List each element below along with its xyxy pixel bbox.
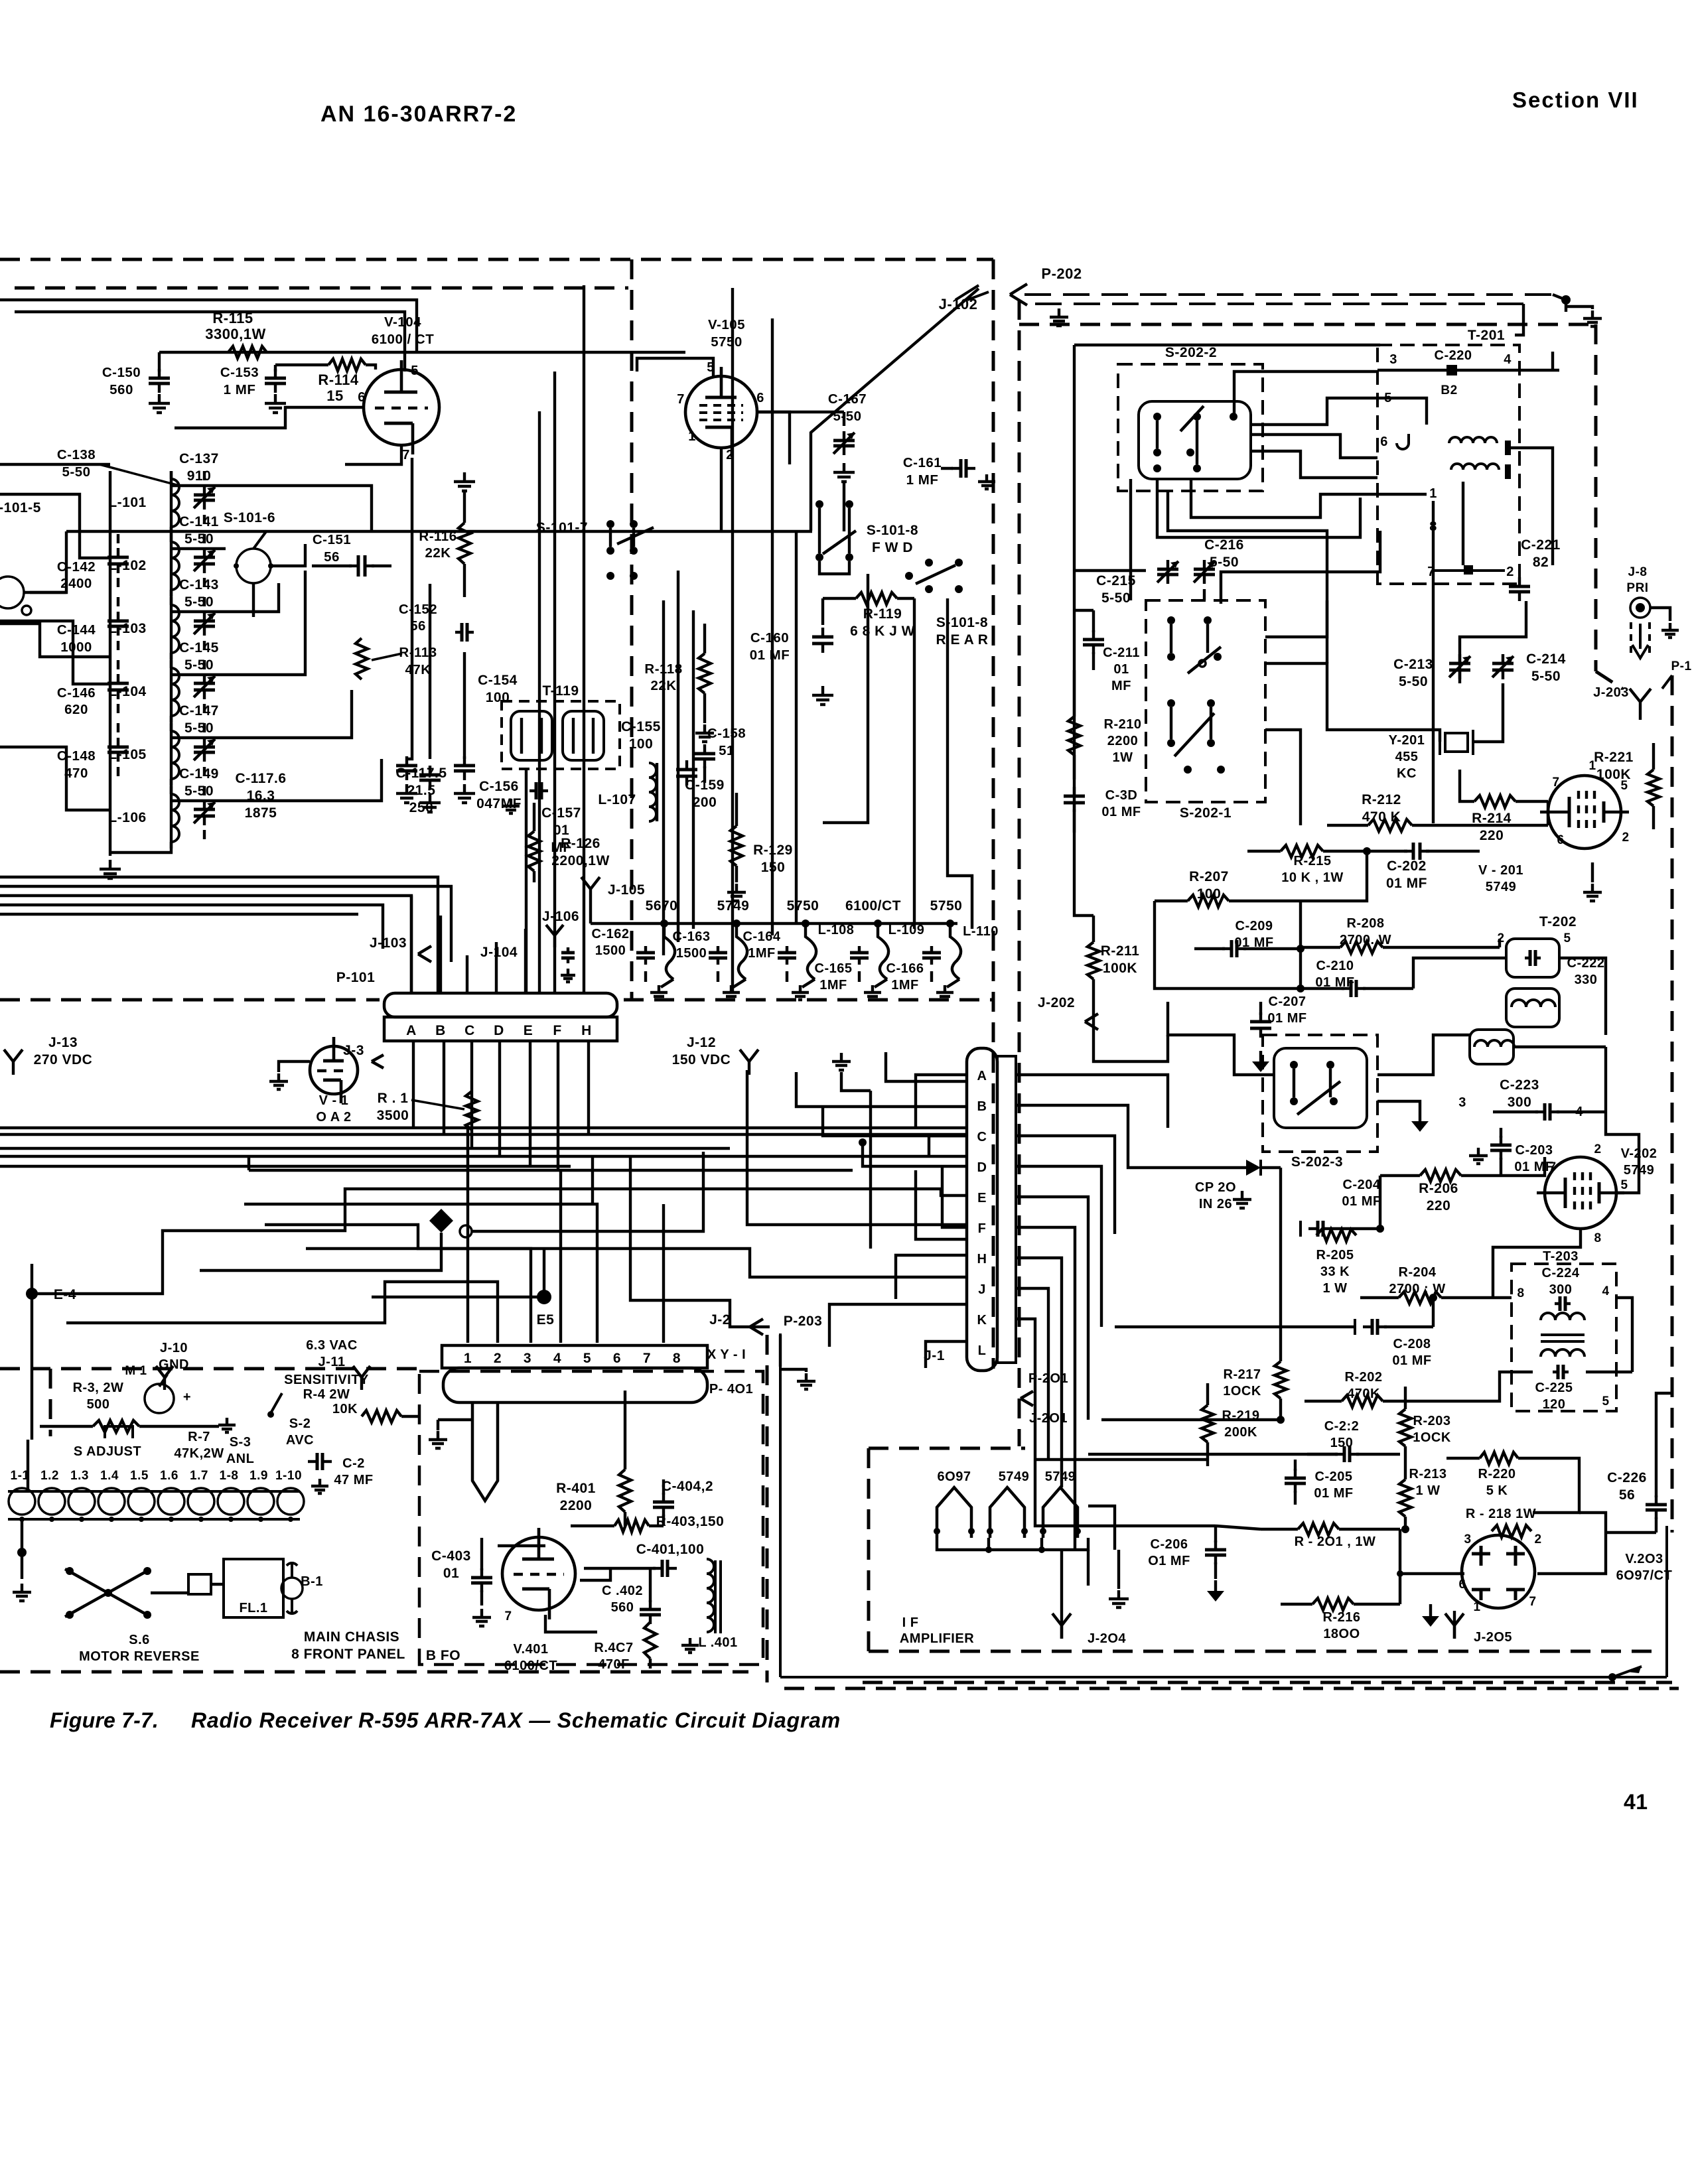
wire long vertical 5 [662, 600, 665, 955]
wire J1 r7 [1016, 1258, 1062, 1487]
ground bottom right [1608, 1665, 1642, 1681]
jack J-10 GND [156, 1341, 189, 1390]
trimmer C-213 [1393, 654, 1470, 689]
tube socket symbol 5 [922, 923, 961, 987]
wire IF h33 [1537, 1533, 1606, 1574]
svg-text:C-208: C-208 [1393, 1337, 1431, 1351]
transformer T-201 pin6 [1380, 434, 1409, 449]
svg-text:56: 56 [324, 549, 340, 565]
wire IF snake 10 [1511, 448, 1553, 565]
svg-text:J-104: J-104 [480, 945, 518, 960]
svg-text:1.4: 1.4 [100, 1469, 119, 1483]
frame IF amp box dashed bottom [869, 1650, 1656, 1653]
resistor R-206 [1380, 1170, 1506, 1213]
svg-text:47K: 47K [405, 662, 431, 677]
wire long vertical 3 [538, 411, 541, 993]
svg-text:100: 100 [486, 690, 510, 705]
svg-text:3: 3 [1458, 1095, 1466, 1110]
resistor R-212 [1327, 792, 1440, 831]
capacitor C-206 [1148, 1526, 1226, 1579]
wire V105 drop 1 [913, 598, 916, 929]
svg-text:S-3: S-3 [230, 1435, 251, 1450]
svg-text:01 MF: 01 MF [1342, 1194, 1381, 1209]
svg-text:P-101: P-101 [336, 970, 376, 985]
svg-text:2200: 2200 [1107, 734, 1139, 748]
ground S-202-3 [1377, 1101, 1429, 1132]
svg-text:C-156: C-156 [479, 779, 519, 794]
resistor R-202 [1304, 1370, 1420, 1407]
wire long vertical 4 [525, 770, 528, 993]
svg-text:I F: I F [902, 1615, 919, 1630]
svg-text:5-50: 5-50 [184, 720, 214, 736]
trimmer capacitor row 4 [194, 723, 215, 776]
resistor R-208 [1301, 916, 1500, 953]
socket arch IF 1 [934, 1487, 975, 1538]
wire IF h9 [1440, 824, 1548, 827]
wire IF h32 [1397, 1570, 1464, 1577]
label C-163 [673, 929, 711, 961]
svg-text:J-103: J-103 [370, 935, 407, 951]
svg-text:R-211: R-211 [1101, 943, 1140, 959]
frame chassis left dashed stub [49, 1369, 52, 1436]
svg-text:T-203: T-203 [1543, 1249, 1579, 1264]
label C-141 [179, 514, 219, 547]
capacitor C-223 [1458, 1077, 1606, 1121]
svg-text:C-209: C-209 [1235, 919, 1273, 933]
svg-text:IN 26: IN 26 [1199, 1197, 1232, 1211]
svg-text:P- 4O1: P- 4O1 [709, 1382, 753, 1397]
frame chassis top dashed [0, 1367, 418, 1371]
svg-text:5: 5 [583, 1351, 591, 1366]
svg-text:2: 2 [1506, 565, 1514, 579]
ground socket 4 [864, 985, 881, 1000]
svg-text:C-401,100: C-401,100 [636, 1542, 705, 1557]
label T-203 [1542, 1249, 1580, 1297]
wire bus A [0, 877, 438, 993]
resistor R-219 [1202, 1383, 1259, 1466]
wire inner frame run 1 [0, 300, 417, 352]
svg-text:1: 1 [1473, 1600, 1480, 1614]
svg-text:C-2:2: C-2:2 [1324, 1419, 1360, 1434]
capacitor C-220 [1389, 348, 1512, 397]
wire socket strip bottom [8, 1517, 300, 1522]
transformer T-119 can 1 [511, 711, 552, 760]
jack J-12 [672, 1035, 758, 1075]
svg-text:6.3 VAC: 6.3 VAC [306, 1338, 358, 1353]
capacitor C-203 [1469, 1128, 1554, 1174]
resistor R-211 [1088, 916, 1139, 1002]
tube V-202 [1537, 1142, 1657, 1245]
wire P-202 corner [1515, 295, 1571, 370]
svg-text:B-1: B-1 [301, 1574, 323, 1589]
wire P101 riser B [443, 1040, 445, 1134]
svg-text:T-201: T-201 [1468, 328, 1505, 343]
wire IF snake 3 [1157, 479, 1360, 537]
inductor L-401 [698, 1559, 737, 1650]
svg-text:470F: 470F [598, 1657, 630, 1672]
svg-text:C-162: C-162 [592, 927, 630, 941]
wire antenna input [0, 531, 110, 657]
frame RF bottom dashed right [624, 998, 993, 1002]
svg-text:01 MF: 01 MF [1392, 1353, 1431, 1368]
transformer T-201 pin5 [1377, 391, 1427, 425]
resistor R-205 [1316, 1229, 1356, 1296]
svg-text:J-2O4: J-2O4 [1088, 1631, 1126, 1646]
svg-text:10 K , 1W: 10 K , 1W [1281, 870, 1343, 885]
svg-text:2: 2 [1622, 831, 1629, 845]
svg-text:J-203: J-203 [1593, 685, 1629, 700]
label C-157 [541, 805, 581, 855]
svg-text:R-203: R-203 [1413, 1414, 1451, 1428]
trimmer capacitor row 1 [194, 534, 215, 587]
svg-text:1000: 1000 [60, 640, 92, 655]
trimmer capacitor row 5 [194, 786, 215, 839]
resistor R-113 [356, 638, 437, 679]
svg-text:5 K: 5 K [1486, 1483, 1508, 1498]
resistor R-210 [1068, 670, 1141, 780]
capacitor C-221 [1509, 537, 1561, 601]
svg-text:C-224: C-224 [1542, 1266, 1580, 1280]
svg-text:5750: 5750 [711, 334, 742, 350]
svg-text:R-4 2W: R-4 2W [303, 1387, 350, 1402]
svg-text:6100 / CT: 6100 / CT [372, 332, 435, 347]
wire socket strip top [8, 1490, 300, 1493]
wire R115 to V105 [407, 351, 685, 354]
resistor R-207 [1155, 869, 1261, 907]
svg-text:1-8: 1-8 [220, 1469, 239, 1483]
svg-text:1-10: 1-10 [275, 1469, 302, 1483]
wire IF h24 [1279, 1168, 1282, 1340]
wire step 1 [32, 1189, 966, 1294]
transformer T-201 core [1505, 441, 1511, 479]
svg-text:R-208: R-208 [1347, 916, 1385, 931]
wire V104 left [175, 407, 364, 428]
wire bus D [0, 905, 383, 949]
inductor L-102 [108, 534, 179, 596]
jack J-105 [581, 877, 645, 923]
capacitor C-144 [57, 597, 129, 655]
svg-text:L-108: L-108 [818, 923, 855, 937]
resistor R-119 [823, 592, 915, 639]
svg-text:F: F [978, 1221, 987, 1236]
capacitor C-207 [1250, 994, 1307, 1072]
switch S-2 AVC [286, 1416, 314, 1448]
connector J-1 [924, 1048, 1016, 1371]
svg-text:C: C [977, 1130, 987, 1144]
capacitor C-2 [308, 1453, 374, 1493]
ground C-167 [833, 463, 855, 482]
label S ADJUST [74, 1444, 141, 1459]
label C-117.5 [395, 766, 447, 815]
svg-text:1.5: 1.5 [130, 1469, 149, 1483]
capacitor C-209 [1194, 919, 1304, 957]
wire P101 riser F [557, 1040, 559, 1170]
frame bottom dashed inner [784, 1687, 1679, 1690]
wire motor wires [151, 1584, 283, 1593]
svg-text:L-109: L-109 [888, 923, 925, 937]
svg-text:220: 220 [1427, 1198, 1451, 1213]
wire bus B [0, 886, 451, 962]
wire ladder stub 1 [0, 463, 110, 466]
jack J-106 [542, 909, 579, 982]
svg-text:R-207: R-207 [1189, 869, 1229, 884]
svg-text:5-50: 5-50 [1531, 669, 1561, 684]
wire step 11 [466, 1128, 469, 1343]
capacitor C-225 [1535, 1365, 1610, 1412]
label L-110 [963, 924, 999, 939]
resistor R-114 [318, 359, 366, 404]
transformer T-201 pins [1427, 486, 1514, 579]
tube V-1 [310, 1037, 358, 1125]
capacitor C-205 [1285, 1460, 1354, 1505]
frame IF right inner dashed [1596, 324, 1622, 689]
svg-text:C-205: C-205 [1315, 1469, 1353, 1484]
svg-text:V - 1: V - 1 [319, 1093, 349, 1108]
rotary switch S-101-6 [224, 510, 275, 583]
svg-text:1MF: 1MF [748, 946, 776, 961]
frame RF bottom dashed left [0, 998, 380, 1002]
svg-text:620: 620 [64, 702, 88, 717]
resistor R-118 [644, 624, 711, 723]
ground J-12 right [832, 1053, 851, 1070]
transformer T-202 can lower [1470, 1030, 1514, 1064]
diode CP-201 [1195, 1160, 1281, 1211]
wire IF snake 5 [1462, 482, 1464, 565]
capacitor C-158 [694, 726, 746, 783]
svg-text:21.5: 21.5 [407, 783, 436, 798]
wire V104 bottom [345, 445, 401, 464]
ground R-118 [695, 724, 714, 742]
svg-text:R - 2O1 , 1W: R - 2O1 , 1W [1295, 1535, 1376, 1549]
wire IF h26 [1493, 1296, 1512, 1299]
capacitor C-226 [1607, 1470, 1667, 1533]
svg-text:B FO: B FO [426, 1648, 460, 1663]
label C-155 [621, 719, 661, 752]
frame IF amp box dashed left [867, 1448, 871, 1651]
trimmer capacitor row 0 [194, 471, 215, 524]
wire step 15 [841, 1072, 871, 1249]
tube V-203 [1458, 1533, 1672, 1614]
wire V104 plate [159, 352, 407, 370]
svg-text:B2: B2 [1441, 383, 1457, 397]
capacitor C-159 [676, 760, 725, 810]
svg-text:C-153: C-153 [220, 365, 259, 380]
capacitor C-211 [1083, 610, 1140, 693]
transformer T-202 [1497, 914, 1577, 1027]
wire step 9 [630, 1156, 770, 1327]
ground P-203 drop [780, 1369, 815, 1389]
svg-text:C-202: C-202 [1387, 858, 1427, 874]
svg-text:C-147: C-147 [179, 703, 219, 718]
capacitor C-152 [399, 602, 474, 642]
svg-text:C-403: C-403 [431, 1548, 471, 1564]
wire ladder stub 2 [0, 494, 110, 558]
svg-text:M 1: M 1 [125, 1364, 147, 1378]
ground C-206 [1207, 1580, 1224, 1602]
svg-text:R-205: R-205 [1316, 1248, 1354, 1263]
svg-text:S-202-3: S-202-3 [1291, 1154, 1343, 1170]
svg-text:C .402: C .402 [602, 1584, 643, 1598]
trimmer C-167 [757, 391, 867, 455]
wire mid v3 [1093, 1002, 1168, 1061]
switch S-101-8 REAR [905, 559, 988, 648]
label C-137 [179, 451, 219, 484]
svg-text:33 K: 33 K [1320, 1264, 1350, 1279]
svg-text:J-10: J-10 [160, 1341, 188, 1355]
resistor R-403 [571, 1514, 724, 1532]
transformer T-203 coil 2 [1541, 1335, 1585, 1357]
wire step 3 [200, 1233, 441, 1270]
jack J-202 [1038, 995, 1098, 1030]
svg-text:C-152: C-152 [399, 602, 437, 617]
motor B-1 [281, 1562, 323, 1615]
svg-text:R . 1: R . 1 [378, 1091, 409, 1106]
switch S-202-1 box [1146, 600, 1265, 821]
svg-text:R-212: R-212 [1362, 792, 1401, 807]
resistor R-126 [528, 803, 610, 882]
jack J-203 [1593, 685, 1651, 720]
ground C-403 [472, 1609, 491, 1626]
wire J1 L row [926, 1341, 966, 1368]
wire P101 pin risers [467, 889, 584, 993]
svg-text:6: 6 [613, 1351, 621, 1366]
svg-text:O A 2: O A 2 [316, 1110, 351, 1125]
wire step 7 [244, 1204, 597, 1343]
jack J-104 [480, 945, 518, 960]
connector P-202 arrow [1010, 265, 1553, 305]
inductor L-103 [108, 597, 179, 659]
ground C-204 [1233, 1191, 1251, 1208]
svg-text:2: 2 [1594, 1142, 1601, 1156]
transformer T-119 can 2 [563, 711, 604, 760]
ground IF sockets [1109, 1550, 1129, 1607]
svg-text:C-225: C-225 [1535, 1381, 1573, 1395]
label C-164 [743, 929, 781, 961]
ground J-8 [1661, 623, 1679, 638]
svg-text:C-161: C-161 [903, 455, 942, 470]
label L-108 [818, 923, 855, 937]
trimmer capacitor row 2 [194, 597, 215, 650]
svg-text:D: D [494, 1023, 504, 1038]
ground C-160 [812, 686, 833, 705]
resistor R-201 [1261, 1523, 1400, 1549]
wire bus long 3 [0, 1148, 966, 1156]
tube socket symbol 1 [636, 923, 675, 987]
svg-text:S-101-6: S-101-6 [224, 510, 275, 525]
wire P101 riser D [498, 1040, 501, 1156]
svg-text:C-210: C-210 [1316, 959, 1354, 973]
ground socket 3 [792, 985, 809, 1000]
svg-text:B: B [435, 1023, 446, 1038]
wire IF h20 [1501, 1157, 1545, 1176]
svg-text:5-50: 5-50 [1101, 590, 1131, 606]
frame IF amp box dashed top [869, 1447, 1025, 1450]
tube V-401 [502, 1528, 575, 1673]
svg-text:R-204: R-204 [1399, 1265, 1437, 1280]
wire J1 r2 [1016, 1105, 1228, 1168]
wire J1 F row [916, 1170, 966, 1239]
tube socket symbol 4 [850, 923, 888, 987]
svg-text:10K: 10K [332, 1402, 358, 1416]
svg-text:5-50: 5-50 [184, 657, 214, 673]
svg-text:6100/CT: 6100/CT [845, 898, 901, 914]
transformer T-201 coil 2 [1451, 464, 1499, 470]
svg-text:R-220: R-220 [1478, 1467, 1516, 1481]
label C-162 [592, 927, 630, 958]
wire S1016 to caps [253, 544, 305, 617]
jack J-2 P-203 [709, 1312, 822, 1367]
wire long vertical 9 [771, 318, 774, 935]
wire bus long 4 [0, 1166, 853, 1170]
capacitor C-404 [653, 1479, 713, 1526]
svg-text:1MF: 1MF [891, 978, 919, 992]
wire J1 r1 [1016, 1075, 1168, 1128]
svg-text:MOTOR REVERSE: MOTOR REVERSE [79, 1649, 200, 1664]
svg-text:C-216: C-216 [1204, 537, 1244, 553]
wire J1 r3 [1016, 1136, 1115, 1234]
wire IF snake 8 [1265, 600, 1327, 637]
resistor R-217 [1223, 1340, 1287, 1420]
svg-text:L: L [978, 1343, 987, 1358]
connector P-401 [443, 1368, 753, 1402]
wire IF h10 [1460, 770, 1548, 801]
svg-text:5-50: 5-50 [184, 531, 214, 547]
svg-text:O1 MF: O1 MF [1148, 1554, 1190, 1568]
label C-166 [886, 961, 924, 992]
svg-text:S.6: S.6 [129, 1633, 150, 1647]
svg-text:C-166: C-166 [886, 961, 924, 976]
resistor R-402 [594, 1622, 656, 1672]
resistor R-3 [73, 1381, 139, 1438]
svg-text:5-50: 5-50 [184, 784, 214, 799]
ground socket 1 [650, 985, 668, 1000]
svg-text:D: D [977, 1160, 987, 1175]
svg-text:C-145: C-145 [179, 640, 219, 655]
label BFO [426, 1648, 460, 1663]
ground socket 5 [936, 985, 953, 1000]
jack J-8 [1626, 565, 1670, 658]
svg-text:1875: 1875 [245, 805, 277, 821]
svg-text:3: 3 [1464, 1533, 1471, 1546]
wire IF h8 [1265, 730, 1301, 825]
svg-text:R-202: R-202 [1345, 1370, 1383, 1385]
wire tuning link 6 [171, 759, 382, 801]
svg-text:C-214: C-214 [1526, 651, 1566, 667]
wire mid v1 [1326, 597, 1328, 663]
wire step 14 [747, 1070, 966, 1225]
wire J1 r4 [1016, 1166, 1101, 1327]
svg-text:1.9: 1.9 [249, 1469, 268, 1483]
wire V105 pins [721, 412, 790, 531]
wire ladder stub 4 [30, 591, 66, 594]
wire step 8 [559, 1170, 562, 1343]
svg-text:GND: GND [159, 1357, 189, 1372]
svg-text:A: A [977, 1069, 987, 1083]
svg-text:C-220: C-220 [1435, 348, 1472, 363]
ground V-1 [269, 1061, 310, 1089]
svg-text:R-401: R-401 [556, 1481, 596, 1496]
svg-text:P-1: P-1 [1671, 659, 1691, 673]
frame chassis bottom dashed [0, 1671, 748, 1674]
ground socket 2 [723, 985, 740, 1000]
svg-text:6O97: 6O97 [938, 1469, 971, 1484]
wire step 13 [372, 1249, 544, 1297]
svg-text:1 W: 1 W [1322, 1281, 1347, 1296]
switch S-202-1 contacts lower [1167, 699, 1225, 774]
transformer T-203 box [1512, 1264, 1616, 1411]
svg-text:MF: MF [1111, 679, 1131, 693]
connector P-101 [336, 970, 617, 1041]
